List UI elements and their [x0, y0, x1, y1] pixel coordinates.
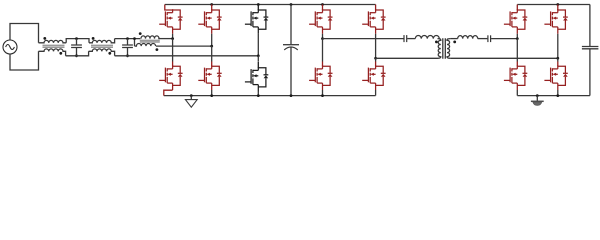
node junction X-cap C2 bottom: [126, 54, 129, 57]
wire C5 to bridge3 leg1 midpoint: [491, 38, 517, 40]
wire Q5 source to midpoint: [257, 34, 259, 56]
wire tank secondary bottom: [450, 57, 558, 59]
transistor Q1 (bridge1 leg1 top, red): [159, 9, 182, 34]
wire top conductor choke2 to boost inductor: [115, 38, 141, 40]
transistor Q13 (bridge3 leg2 top, red): [544, 9, 567, 34]
transistor Q7 (bridge2 legA top, red): [309, 9, 332, 34]
wire Q8 source to bottom rail: [322, 90, 324, 96]
node bottom rail leg2: [210, 94, 213, 97]
node junction X-cap C1 top: [75, 37, 78, 40]
wire neutral conductor to leg3 midpoint: [115, 55, 259, 57]
CM choke L1 top winding: [39, 40, 67, 42]
node leg1 midpoint: [171, 37, 174, 40]
wire Q11 source to midpoint: [516, 34, 518, 39]
transistor Q3 drain lead: [211, 5, 213, 11]
CM choke L1 bottom winding: [39, 49, 66, 56]
coupled boost inductor L3 polarity dot top: [139, 32, 142, 35]
ground GND1: [185, 96, 197, 108]
wire Q12 source to bottom rail: [516, 90, 518, 96]
capacitor C3 (DC link, polarized): [283, 5, 299, 96]
transformer T1 secondary winding: [447, 39, 450, 59]
wire source loop top: [10, 24, 39, 43]
transistor Q9 drain corner: [375, 5, 377, 11]
wire L3 bottom winding to leg2 midpoint: [156, 45, 212, 47]
node bridge3 leg1 midpoint: [516, 37, 519, 40]
wire Q6 source to bottom rail: [257, 92, 259, 96]
node leg2 midpoint: [210, 45, 213, 48]
wire L5 to C5: [478, 38, 488, 40]
CM choke L2 core: [91, 45, 113, 47]
inductor L4 (resonant): [415, 36, 439, 39]
wire top rail bridge1-2: [165, 4, 376, 6]
node top rail leg2: [210, 3, 213, 6]
node bottom rail legA: [321, 94, 324, 97]
transistor Q9 (bridge2 legB top, red): [362, 9, 385, 34]
node legA midpoint: [321, 37, 324, 40]
wire leg3 midpoint to Q6 drain: [257, 56, 259, 61]
node top rail bridge3 leg2: [556, 3, 559, 6]
node top rail bridge2 legA: [321, 3, 324, 6]
transistor Q13 drain lead: [557, 5, 559, 11]
transistor Q14 drain lead: [557, 62, 559, 67]
wire C4 to L4: [407, 38, 415, 40]
wire top rail bridge3: [517, 4, 590, 6]
transformer T1 primary dot: [435, 41, 438, 44]
node bottom rail DC-link cap: [290, 94, 293, 97]
coupled boost inductor L3 core: [140, 40, 160, 42]
wire Q9 source to midpoint crossing tank wire: [375, 34, 377, 59]
transistor Q6 (bridge1 leg3 bottom, black): [245, 67, 268, 92]
wire source loop bottom: [10, 51, 39, 70]
wire T1 secondary top to L5: [450, 38, 457, 40]
CM choke L1 core: [43, 45, 65, 47]
inductor L5 (resonant secondary): [458, 36, 478, 39]
node bottom rail ground2: [536, 94, 539, 97]
wire leg2 midpoint to Q14 drain: [557, 58, 559, 61]
wire leg1 midpoint to Q12 drain crossing secondary bottom: [516, 39, 518, 62]
capacitor C2 (X-cap): [122, 39, 133, 56]
node leg3 midpoint: [257, 54, 260, 57]
wire leg2 midpoint to Q4 drain: [211, 46, 213, 61]
wire Q14 source to bottom rail: [557, 90, 559, 96]
transistor Q8 (bridge2 legA bottom, red): [309, 65, 332, 90]
capacitor C5 (resonant secondary, series): [488, 35, 491, 42]
CM choke L1 polarity dot top: [43, 37, 46, 40]
capacitor C6 (output): [582, 5, 599, 96]
node junction boost inductor input: [133, 37, 136, 40]
transistor Q6 drain lead: [257, 62, 259, 68]
transformer T1 core: [443, 38, 446, 59]
coupled boost inductor L3 polarity dot bottom: [156, 48, 159, 51]
transistor Q1 drain jog: [165, 5, 173, 11]
transistor Q8 drain lead: [322, 62, 324, 67]
node top rail leg3: [257, 3, 260, 6]
CM choke L2 bottom winding: [89, 49, 115, 56]
AC source V1: [3, 40, 17, 54]
wire leg1 midpoint to Q2 drain: [172, 39, 174, 62]
wire legA midpoint to Q8 drain: [322, 39, 324, 62]
wire Q7 source to midpoint: [322, 34, 324, 39]
wire bottom rail bridge3: [517, 95, 590, 97]
wire Q4 source to bottom rail: [211, 90, 213, 96]
wire bottom conductor choke1 to choke2: [66, 51, 89, 56]
node legB midpoint: [374, 57, 377, 60]
node junction X-cap C2 top: [126, 37, 129, 40]
transformer T1 primary winding: [438, 39, 441, 59]
wire Q3 source to midpoint: [211, 34, 213, 46]
capacitor C4 (resonant, series): [404, 35, 407, 42]
transistor Q2 (bridge1 leg1 bottom, red): [159, 65, 182, 90]
transistor Q4 (bridge1 leg2 bottom, red): [198, 65, 221, 90]
transistor Q7 drain lead: [322, 5, 324, 11]
wire tank primary bottom: [376, 57, 438, 59]
transformer T1 secondary dot: [453, 41, 456, 44]
CM choke L2 polarity dot top: [92, 37, 95, 40]
node bottom rail leg3: [257, 94, 260, 97]
transistor Q11 (bridge3 leg1 top, red): [504, 9, 527, 34]
wire Q10 source to bottom rail corner: [375, 90, 377, 96]
wire boost inductor input junction vertical: [134, 39, 136, 47]
wire tank primary top: [323, 38, 404, 40]
transistor Q11 drain corner: [516, 5, 518, 11]
transistor Q4 drain lead: [211, 62, 213, 67]
node bottom rail ground: [190, 94, 193, 97]
CM choke L2 polarity dot bottom: [108, 52, 111, 55]
capacitor C1 (X-cap): [71, 39, 82, 56]
transistor Q2 drain lead: [172, 62, 174, 67]
transistor Q10 drain lead: [375, 62, 377, 67]
wire L3 top winding to leg1 midpoint: [158, 38, 172, 40]
transistor Q10 (bridge2 legB bottom, red): [362, 65, 385, 90]
wire top conductor choke1 to choke2: [66, 39, 89, 43]
CM choke L1 polarity dot bottom: [59, 52, 62, 55]
wire Q13 source to midpoint: [557, 34, 559, 59]
node junction X-cap C1 bottom: [75, 54, 78, 57]
transistor Q12 (bridge3 leg1 bottom, red): [504, 65, 527, 90]
node top rail DC-link cap: [290, 3, 293, 6]
ground GND2 (chassis): [531, 96, 544, 106]
wire bottom rail bridge1-2: [164, 95, 376, 97]
transistor Q14 (bridge3 leg2 bottom, red): [544, 65, 567, 90]
transistor Q12 drain lead: [516, 62, 518, 67]
wire legB midpoint to Q10 drain: [375, 58, 377, 61]
transistor Q5 drain lead: [257, 5, 259, 11]
coupled boost inductor L3 top winding: [141, 36, 159, 39]
node bridge3 leg2 midpoint: [556, 57, 559, 60]
transistor Q3 (bridge1 leg2 top, red): [198, 9, 221, 34]
wire Q1 source to midpoint: [172, 34, 174, 39]
node bottom rail bridge3 leg2: [556, 94, 559, 97]
CM choke L2 top winding: [89, 39, 115, 43]
transistor Q2 source jog to bottom rail: [164, 90, 173, 95]
transistor Q5 (bridge1 leg3 top, black): [245, 9, 268, 34]
coupled boost inductor L3 bottom winding: [135, 43, 156, 46]
